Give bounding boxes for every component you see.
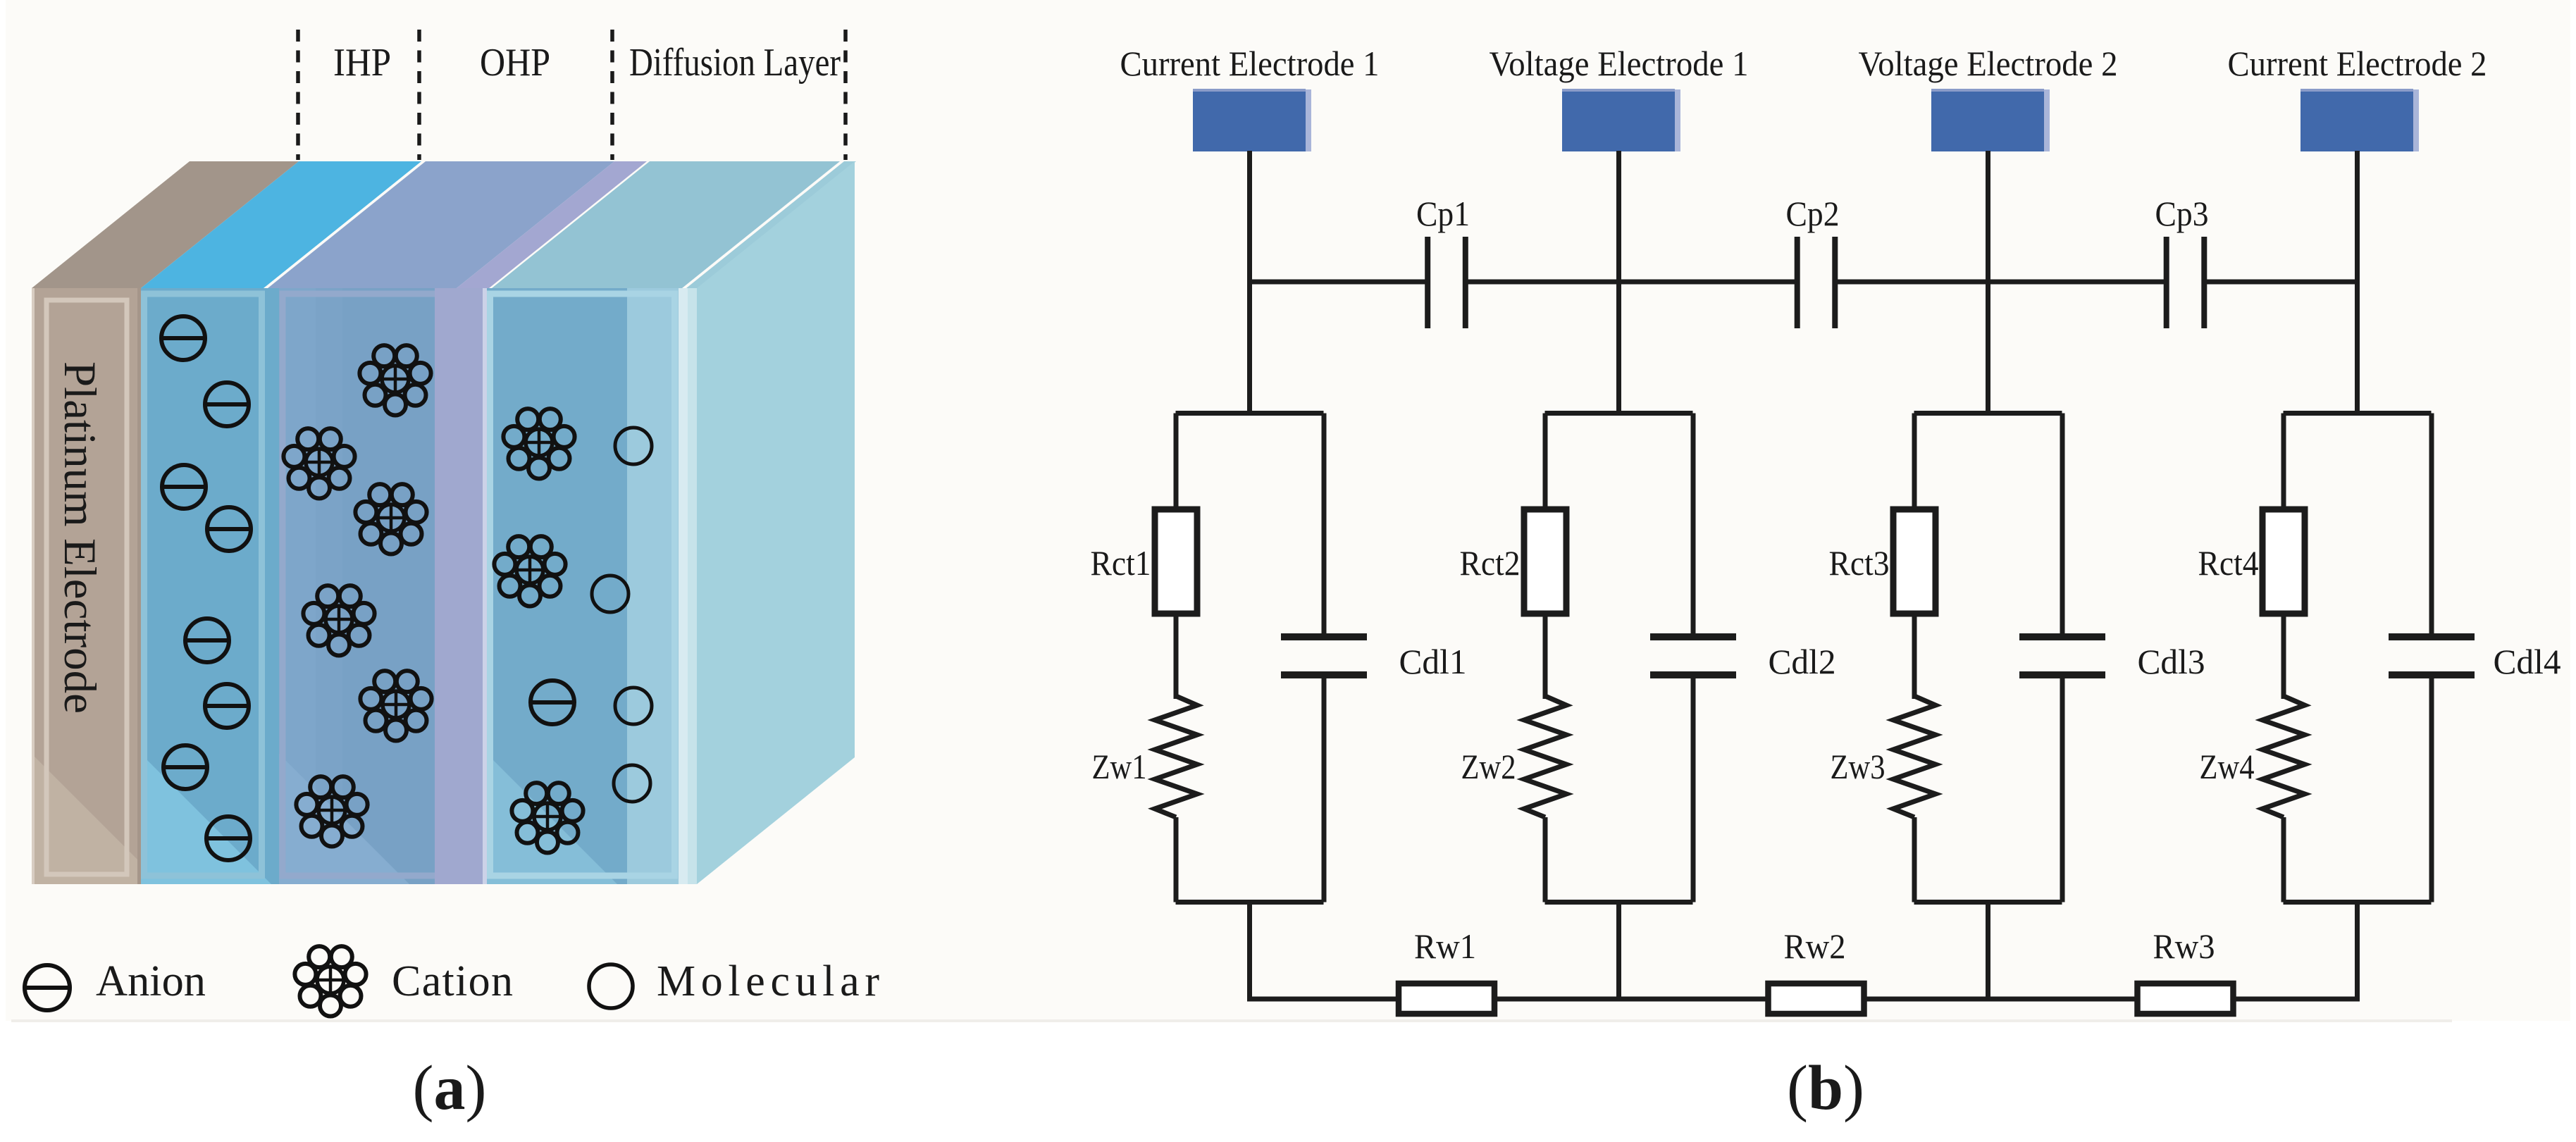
wire cell 2 down to bottom bus	[1616, 900, 1621, 1002]
wire top bus segment 2a	[1619, 280, 1797, 285]
warburg impedance Zw4	[2262, 696, 2305, 817]
wire right branch lower cell 1	[1322, 678, 1327, 902]
wire electrode 3 down to cell 3	[1986, 151, 1990, 416]
wire cell 1 top rail	[1176, 411, 1324, 416]
svg-text:Diffusion Layer: Diffusion Layer	[629, 41, 841, 85]
anions in IHP layer	[161, 316, 251, 860]
svg-text:Cp3: Cp3	[2155, 194, 2209, 233]
wire right branch upper cell 2	[1691, 414, 1696, 636]
wire left branch middle cell 3	[1912, 612, 1917, 699]
wire bottom bus segment 2a	[1619, 997, 1771, 1002]
OHP plane dashed line	[417, 30, 421, 160]
wire left branch lower cell 1	[1174, 817, 1179, 902]
svg-text:Cation: Cation	[392, 957, 513, 1005]
outer boundary dashed line	[843, 30, 848, 160]
wire top bus segment 2b	[1835, 280, 1988, 285]
wire right branch upper cell 4	[2429, 414, 2434, 636]
resistor Rct2	[1524, 509, 1566, 614]
svg-text:Rct2: Rct2	[1460, 543, 1521, 583]
warburg impedance Zw2	[1524, 696, 1566, 817]
svg-text:IHP: IHP	[333, 41, 391, 85]
wire right branch lower cell 3	[2060, 678, 2065, 902]
wire cell 4 bottom rail	[2284, 900, 2432, 905]
wire left branch middle cell 2	[1543, 612, 1548, 699]
svg-text:Rct3: Rct3	[1829, 543, 1890, 583]
wire cell 3 down to bottom bus	[1986, 900, 1990, 1002]
svg-text:Zw1: Zw1	[1092, 747, 1147, 786]
diffusion layer slab	[679, 161, 856, 884]
svg-text:Rw2: Rw2	[1784, 926, 1846, 966]
wire left branch lower cell 4	[2281, 817, 2286, 902]
resistor Rw2	[1769, 983, 1864, 1014]
wire left branch upper cell 2	[1543, 414, 1548, 513]
cations in OHP layer	[283, 345, 431, 846]
wire right branch upper cell 1	[1322, 414, 1327, 636]
resistor Rct1	[1155, 509, 1197, 614]
svg-text:Cp2: Cp2	[1786, 194, 1840, 233]
wire left branch upper cell 3	[1912, 414, 1917, 513]
wire left branch upper cell 4	[2281, 414, 2286, 513]
IHP plane dashed line	[296, 30, 300, 160]
cations in outer layer	[494, 409, 583, 852]
warburg impedance Zw1	[1155, 696, 1197, 817]
capacitor Cdl2	[1650, 633, 1736, 678]
legend anion symbol	[25, 965, 70, 1010]
svg-text:Anion: Anion	[96, 957, 206, 1005]
wire right branch lower cell 4	[2429, 678, 2434, 902]
capacitor Cp1	[1425, 237, 1468, 328]
wire top bus segment 3b	[2204, 280, 2357, 285]
svg-text:Voltage Electrode 1: Voltage Electrode 1	[1490, 44, 1749, 83]
wire right branch lower cell 2	[1691, 678, 1696, 902]
OHP plane slab	[435, 161, 647, 884]
svg-text:Zw3: Zw3	[1831, 747, 1885, 786]
wire cell 4 top rail	[2284, 411, 2432, 416]
capacitor Cp2	[1795, 237, 1838, 328]
svg-text:Cp1: Cp1	[1416, 194, 1470, 233]
wire bottom bus segment 3a	[1988, 997, 2141, 1002]
electrode pad Current Electrode 2	[2301, 89, 2419, 151]
svg-text:Rct1: Rct1	[1091, 543, 1151, 583]
wire bottom bus segment 1a	[1250, 997, 1402, 1002]
wire cell 1 bottom rail	[1176, 900, 1324, 905]
diffusion boundary dashed line	[610, 30, 614, 160]
svg-text:Cdl4: Cdl4	[2494, 642, 2561, 681]
wire bottom bus segment 2b	[1862, 997, 1988, 1002]
svg-text:Voltage Electrode 2: Voltage Electrode 2	[1859, 44, 2118, 83]
resistor Rw1	[1399, 983, 1494, 1014]
electrode pad Voltage Electrode 1	[1562, 89, 1680, 151]
electrode pad Voltage Electrode 2	[1931, 89, 2050, 151]
wire top bus segment 1b	[1466, 280, 1619, 285]
svg-text:(a): (a)	[413, 1053, 487, 1123]
wire electrode 4 down to cell 4	[2355, 151, 2360, 416]
wire cell 3 top rail	[1914, 411, 2062, 416]
molecular circles in outer layer	[592, 428, 652, 802]
outer ion layer slab	[487, 161, 840, 884]
wire cell 4 down to bottom bus	[2355, 900, 2360, 1002]
svg-text:Cdl1: Cdl1	[1399, 642, 1467, 681]
wire top bus segment 3a	[1988, 280, 2167, 285]
svg-text:Rw1: Rw1	[1414, 926, 1476, 966]
faint figure border line	[11, 1019, 2452, 1022]
capacitor Cdl1	[1281, 633, 1367, 678]
svg-text:Cdl3: Cdl3	[2138, 642, 2205, 681]
svg-text:Current Electrode 2: Current Electrode 2	[2228, 44, 2487, 83]
wire electrode 2 down to cell 2	[1616, 151, 1621, 416]
svg-text:OHP: OHP	[480, 41, 550, 85]
electrode pad Current Electrode 1	[1193, 89, 1311, 151]
resistor Rct3	[1893, 509, 1936, 614]
wire cell 1 down to bottom bus	[1247, 900, 1252, 1002]
wire left branch lower cell 3	[1912, 817, 1917, 902]
svg-text:Cdl2: Cdl2	[1769, 642, 1836, 681]
wire cell 3 bottom rail	[1914, 900, 2062, 905]
capacitor Cp3	[2164, 237, 2207, 328]
OHP layer slab	[268, 161, 614, 884]
svg-text:Rw3: Rw3	[2153, 926, 2215, 966]
wire bottom bus segment 1b	[1492, 997, 1619, 1002]
resistor Rw3	[2138, 983, 2234, 1014]
wire cell 2 bottom rail	[1545, 900, 1693, 905]
wire left branch upper cell 1	[1174, 414, 1179, 513]
wire electrode 1 down to cell 1	[1247, 151, 1252, 416]
svg-text:Zw2: Zw2	[1461, 747, 1516, 786]
svg-text:(b): (b)	[1787, 1053, 1864, 1123]
capacitor Cdl3	[2019, 633, 2105, 678]
IHP layer slab	[141, 161, 421, 884]
wire top bus segment 1a	[1250, 280, 1428, 285]
warburg impedance Zw3	[1893, 696, 1936, 817]
wire bottom bus segment 3b	[2231, 997, 2358, 1002]
resistor Rct4	[2262, 509, 2305, 614]
anion in outer layer	[531, 681, 574, 724]
capacitor Cdl4	[2389, 633, 2475, 678]
svg-text:Rct4: Rct4	[2198, 543, 2259, 583]
svg-text:Zw4: Zw4	[2200, 747, 2255, 786]
wire left branch lower cell 2	[1543, 817, 1548, 902]
platinum electrode slab	[32, 161, 299, 884]
legend molecular symbol	[589, 964, 633, 1008]
svg-text:Platinum Electrode: Platinum Electrode	[54, 361, 105, 714]
wire left branch middle cell 1	[1174, 612, 1179, 699]
svg-text:Current Electrode 1: Current Electrode 1	[1120, 44, 1380, 83]
legend cation symbol	[295, 946, 366, 1016]
wire left branch middle cell 4	[2281, 612, 2286, 699]
wire cell 2 top rail	[1545, 411, 1693, 416]
wire right branch upper cell 3	[2060, 414, 2065, 636]
